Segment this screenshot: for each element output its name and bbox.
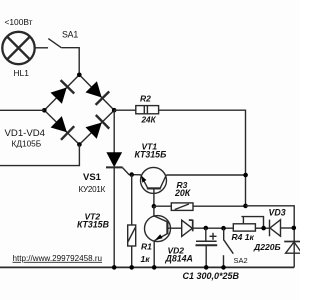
thyristor VS1 xyxy=(106,110,141,267)
wire VT1 collector to right xyxy=(166,174,245,176)
svg-text:R4 1к: R4 1к xyxy=(232,232,255,242)
bridge diode VD4 (bottom-right arm) xyxy=(86,115,110,139)
bridge edge wire top-right xyxy=(79,75,114,111)
wire bottom node to left edge xyxy=(0,145,79,166)
rail node VS1 xyxy=(112,265,117,270)
rail node C1 xyxy=(204,265,209,270)
svg-text:VD1-VD4: VD1-VD4 xyxy=(5,128,46,139)
svg-text:R1: R1 xyxy=(141,242,152,252)
svg-text:HL1: HL1 xyxy=(14,68,30,78)
switch SA2 xyxy=(224,228,234,267)
node SA2 top xyxy=(221,226,226,231)
wire R3 line left segment xyxy=(154,205,171,207)
zener VD2 xyxy=(182,220,193,237)
resistor R4 xyxy=(233,217,263,232)
wire left node to edge xyxy=(0,109,44,111)
wire VD3 to right line xyxy=(281,227,295,229)
wire right node to R2 xyxy=(114,109,136,111)
node VT1 base / R3 xyxy=(152,204,157,209)
svg-text:КТ315Б: КТ315Б xyxy=(135,150,167,160)
diode VD4a (unlabelled, bottom-right vertical, clipped at edge) xyxy=(284,242,302,254)
wire VT2 base to VD2 xyxy=(167,227,181,229)
svg-text:24К: 24К xyxy=(141,116,157,125)
lamp HL1 xyxy=(2,32,34,64)
svg-text:R2: R2 xyxy=(140,94,151,104)
svg-text:Д220Б: Д220Б xyxy=(253,242,281,252)
svg-text:1к: 1к xyxy=(141,254,151,264)
svg-text:VD3: VD3 xyxy=(269,208,286,218)
node collector/R2 line xyxy=(243,173,248,178)
wire gate node down to R1 xyxy=(131,175,133,225)
transistor VT1 xyxy=(141,167,167,206)
bridge edge wire left-bottom xyxy=(44,110,79,144)
node left xyxy=(42,108,47,113)
transistor VT2 xyxy=(145,216,171,268)
plus sign C1 xyxy=(210,233,217,240)
svg-text:20К: 20К xyxy=(174,188,191,198)
svg-text:КД105Б: КД105Б xyxy=(12,139,42,149)
node C1 top xyxy=(204,226,209,231)
node bottom xyxy=(77,142,82,147)
wire SA1 to bridge top xyxy=(61,48,79,75)
svg-text:С1 300,0*25В: С1 300,0*25В xyxy=(183,271,240,281)
node VS1 gate / VT1 emitter xyxy=(129,172,134,177)
svg-text:КТ315В: КТ315В xyxy=(77,220,110,230)
wire R1 to rail xyxy=(131,246,133,267)
wire VD2 to SA2 node xyxy=(193,227,234,229)
svg-text:<100Вт: <100Вт xyxy=(5,17,33,27)
wire R4 to VD3 xyxy=(255,227,269,229)
rail node SA2 xyxy=(221,265,226,270)
bridge diode VD2 (top-right arm) xyxy=(86,81,110,105)
resistor R1 xyxy=(128,225,136,246)
svg-text:КУ201К: КУ201К xyxy=(79,185,106,194)
wire R2 to right corner and down xyxy=(159,110,246,206)
diode VD3 xyxy=(270,220,281,237)
wire VT1 base down to VT2 collector xyxy=(153,206,155,216)
wire R3 to T node xyxy=(193,205,246,207)
bridge edge wire bottom-right xyxy=(79,110,114,144)
capacitor C1 xyxy=(196,228,218,267)
rail node VT2 emitter xyxy=(152,265,157,270)
svg-text:http://www.299792458.ru: http://www.299792458.ru xyxy=(13,254,103,263)
svg-text:SA2: SA2 xyxy=(234,256,248,265)
bridge diode VD3 (bottom-left arm) xyxy=(51,116,75,140)
wire T node to right edge and down xyxy=(246,206,295,268)
bottom rail xyxy=(0,266,294,268)
resistor R2 xyxy=(136,106,159,114)
node top xyxy=(77,73,82,78)
bridge edge wire left-top xyxy=(44,75,79,111)
resistor R3 xyxy=(171,203,193,211)
switch SA1 xyxy=(48,39,61,48)
node right edge xyxy=(292,226,297,231)
wire lamp to SA1 xyxy=(34,47,48,49)
svg-text:VS1: VS1 xyxy=(83,172,102,183)
node T right xyxy=(243,204,248,209)
node right xyxy=(112,108,117,113)
svg-text:Д814А: Д814А xyxy=(165,254,193,264)
node R4 right xyxy=(261,226,266,231)
svg-text:SA1: SA1 xyxy=(62,29,78,39)
rail node R1 xyxy=(129,265,134,270)
bridge diode VD1 (top-left arm) xyxy=(51,80,75,104)
